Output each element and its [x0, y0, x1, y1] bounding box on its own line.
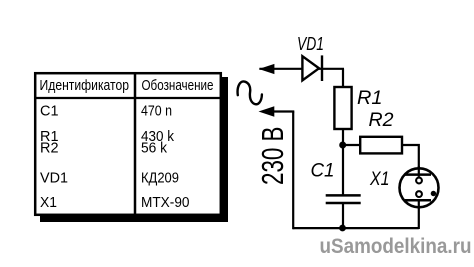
svg-text:X1: X1	[40, 195, 57, 211]
svg-text:Обозначение: Обозначение	[142, 78, 214, 94]
svg-text:X1: X1	[369, 169, 389, 190]
svg-text:VD1: VD1	[297, 34, 324, 54]
svg-text:230 В: 230 В	[256, 127, 290, 186]
svg-text:КД209: КД209	[141, 171, 179, 187]
svg-text:56 k: 56 k	[141, 141, 168, 157]
svg-text:MTX-90: MTX-90	[141, 195, 190, 211]
svg-text:C1: C1	[40, 104, 59, 120]
svg-text:C1: C1	[311, 160, 335, 181]
svg-text:470 n: 470 n	[141, 104, 172, 120]
svg-text:R2: R2	[40, 141, 59, 157]
svg-text:R2: R2	[369, 110, 394, 131]
svg-text:R1: R1	[357, 88, 383, 109]
svg-text:uSamodelkina.ru: uSamodelkina.ru	[320, 234, 472, 258]
svg-text:Идентификатор: Идентификатор	[40, 78, 130, 94]
svg-text:VD1: VD1	[40, 171, 68, 187]
